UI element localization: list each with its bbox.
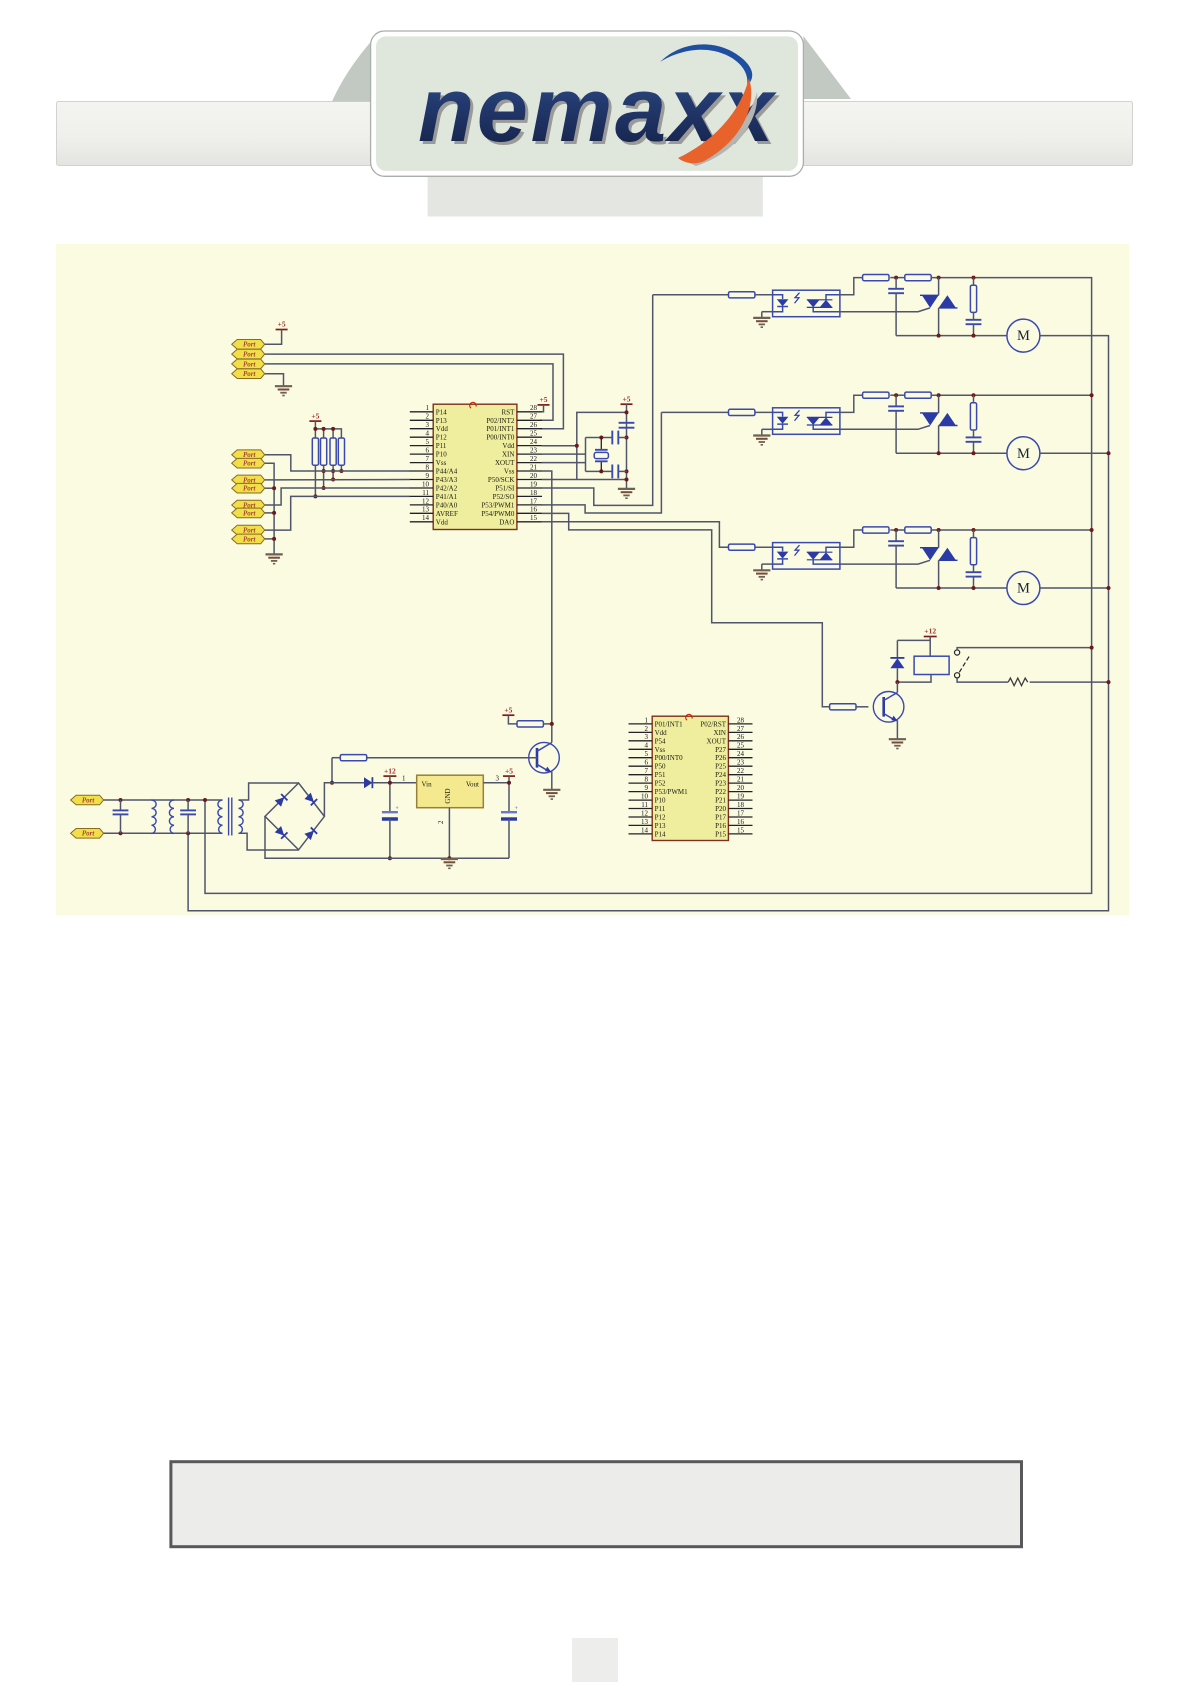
svg-text:M: M: [1017, 446, 1030, 462]
svg-text:P14: P14: [655, 830, 666, 838]
junction: [972, 393, 976, 397]
svg-text:Vss: Vss: [436, 459, 447, 467]
wire +5 to R5: [508, 715, 517, 724]
U2 pin 20 (P22) stub: [728, 791, 752, 793]
wire to ground: [761, 564, 763, 570]
wire +12 branch to flyback diode: [897, 639, 930, 641]
svg-text:5: 5: [645, 750, 649, 758]
switch S1 (relay contacts): [955, 650, 970, 678]
transformer T1 primary: [218, 800, 223, 834]
svg-text:Port: Port: [243, 341, 257, 349]
wire Q2 emitter to ground: [896, 720, 898, 738]
svg-text:Vss: Vss: [655, 746, 666, 754]
wire R2 top: [323, 429, 325, 438]
wire R9 to Q2 base: [856, 706, 868, 708]
port connector J6: [232, 458, 265, 468]
svg-text:12: 12: [641, 809, 649, 817]
svg-text:1: 1: [402, 775, 406, 783]
U1 pin 5 (P11) stub: [410, 445, 433, 447]
svg-text:2: 2: [645, 725, 649, 733]
svg-text:3: 3: [426, 421, 430, 429]
svg-text:9: 9: [645, 784, 649, 792]
U1 pin 8 (P44/A4) stub: [410, 470, 433, 472]
U1 pin 14 (Vdd) stub: [410, 521, 433, 523]
svg-text:14: 14: [641, 826, 649, 834]
optocoupler U4 (channel 1): [773, 290, 840, 317]
wire D1 to regulator Vin: [372, 782, 416, 784]
wire C3 to rail: [618, 470, 626, 472]
ground (top-left ports): [275, 386, 292, 395]
wire C8 bottom: [120, 814, 122, 833]
schematic sheet background: [56, 244, 1129, 915]
port connector J4: [232, 369, 265, 379]
capacitor C9 (snubber channel 3): [966, 572, 982, 576]
svg-text:P50: P50: [655, 763, 666, 771]
wire opto to TR3 gate: [840, 560, 930, 564]
svg-text:2: 2: [437, 820, 445, 824]
U2 pin 22 (P24) stub: [728, 774, 752, 776]
U2 pin 2 (Vdd) stub: [629, 731, 653, 733]
junction on AC rail B: [1107, 451, 1111, 455]
U2 pin 3 (P54) stub: [629, 740, 653, 742]
resistor R3: [330, 438, 336, 465]
wire to snubber cap: [895, 278, 897, 289]
wire ground rail (bridge DC-): [265, 816, 509, 858]
junction: [388, 856, 392, 860]
svg-text:+12: +12: [384, 766, 396, 775]
wire channel 2 input: [661, 411, 728, 413]
+12 power (relay): [924, 627, 937, 637]
U2 pin 26 (XOUT) stub: [728, 740, 752, 742]
svg-text:16: 16: [530, 506, 538, 514]
logo gray swoosh: [688, 92, 757, 166]
wire channel 1 bottom rail: [896, 335, 1007, 337]
wire +5 rail (crystal): [626, 404, 628, 488]
capacitor C7 (snubber channel 1): [966, 320, 982, 324]
svg-text:P43/A3: P43/A3: [436, 476, 458, 484]
junction: [937, 393, 941, 397]
svg-text:5: 5: [426, 438, 430, 446]
wire to C8: [120, 800, 122, 810]
svg-text:1: 1: [426, 404, 430, 412]
capacitor C5 (channel 2): [888, 406, 904, 410]
junction: [972, 586, 976, 590]
U1 pin 6 (P10) stub: [410, 453, 433, 455]
svg-text:27: 27: [737, 725, 745, 733]
svg-text:18: 18: [737, 801, 745, 809]
U1 pin 23 (XIN) stub: [517, 453, 542, 455]
junction: [894, 528, 898, 532]
junction: [447, 856, 451, 860]
wire opto U5 output up to top row: [840, 395, 863, 412]
wire +5 to R1 top: [314, 421, 316, 438]
port connector J5: [232, 450, 265, 460]
svg-text:1: 1: [645, 716, 649, 724]
U1 designator C: [470, 402, 476, 408]
svg-text:RST: RST: [502, 408, 516, 416]
junction: [322, 427, 326, 431]
port connector J12: [232, 534, 265, 544]
U2 pin 1 (P01/INT1) stub: [629, 723, 653, 725]
svg-text:20: 20: [530, 472, 538, 480]
crystal Y1: [594, 438, 608, 472]
svg-text:16: 16: [737, 818, 745, 826]
U1 pin 21 (Vss) stub: [517, 470, 542, 472]
resistor R21 (snubber channel 2): [970, 403, 976, 430]
wire motor 2 to AC rail B: [1040, 452, 1109, 454]
wire AC top rail: [104, 799, 223, 801]
page number block: [572, 1638, 618, 1682]
svg-text:P20: P20: [715, 805, 726, 813]
svg-text:21: 21: [530, 463, 538, 471]
svg-text:Vdd: Vdd: [436, 518, 449, 526]
wire to snubber cap: [895, 395, 897, 406]
diode D3 (bridge): [275, 794, 288, 807]
U2 pin 23 (P25) stub: [728, 765, 752, 767]
U1 pin 26 (P01/INT1) stub: [517, 428, 542, 430]
resistor R1: [312, 438, 318, 465]
wire R2 bottom to P42/A2 line: [323, 465, 325, 488]
port connector J7: [232, 475, 265, 485]
logo orange swoosh: [678, 78, 751, 163]
diode D4 (bridge): [304, 793, 317, 806]
wire motor 1 to AC rail B (outer loop): [188, 336, 1108, 911]
svg-text:+5: +5: [311, 411, 319, 420]
wire U1 pin 21 down to Q1 collector net: [542, 471, 552, 742]
capacitor C1 (supply filter): [619, 423, 635, 428]
resistor R17 (channel 1): [905, 275, 931, 281]
svg-text:15: 15: [737, 826, 745, 834]
wire U1 XIN pin 23: [542, 453, 586, 455]
wire +12 to relay coil: [929, 637, 931, 657]
junction: [507, 781, 511, 785]
U1 pin 2 (P13) stub: [410, 419, 433, 421]
wire Q1 emitter to ground: [551, 771, 553, 789]
U2 pin 12 (P12) stub: [629, 816, 653, 818]
svg-text:P42/A2: P42/A2: [436, 485, 458, 493]
svg-text:P24: P24: [715, 771, 726, 779]
resistor R14 (channel 1): [863, 275, 889, 281]
wire port1 to +5: [265, 330, 282, 345]
U2 pin 21 (P23) stub: [728, 782, 752, 784]
junction: [186, 798, 190, 802]
ground (power supply): [441, 859, 458, 868]
wire port3 to U1 pin 27 P02/INT2: [265, 364, 553, 420]
junction: [937, 451, 941, 455]
svg-text:Vss: Vss: [504, 468, 515, 476]
wire secondary bottom to bridge: [239, 833, 299, 850]
svg-text:P54: P54: [655, 737, 666, 745]
ground (channel 3 opto): [753, 570, 770, 579]
port connector J10: [232, 508, 265, 518]
wire U1 P54/PWM0 to relay driver base: [542, 513, 830, 706]
svg-text:AVREF: AVREF: [436, 510, 458, 518]
wire opto U4 cathode to ground: [762, 311, 773, 313]
wire +5 node to C11: [508, 776, 510, 812]
wire R12 to opto U5: [755, 411, 773, 413]
svg-text:P00/INT0: P00/INT0: [486, 434, 515, 442]
svg-text:10: 10: [422, 480, 430, 488]
port connector J9: [232, 500, 265, 510]
svg-text:Vdd: Vdd: [436, 425, 449, 433]
relay K1 coil: [914, 656, 949, 674]
svg-text:P54/PWM0: P54/PWM0: [481, 510, 515, 518]
svg-text:28: 28: [737, 716, 745, 724]
wire XIN/XOUT left rail: [585, 438, 587, 472]
wire cap to bottom rail: [895, 293, 897, 335]
transformer T1 secondary: [239, 800, 244, 834]
transformer T1 core: [229, 798, 232, 836]
inductor L2 (common-mode choke winding B): [169, 800, 174, 834]
wire port6 to ground bus: [265, 463, 274, 554]
wire opto U6 output up to top row: [840, 530, 863, 547]
svg-text:P11: P11: [655, 805, 666, 813]
svg-text:Port: Port: [243, 360, 257, 368]
junction: [119, 798, 123, 802]
svg-text:17: 17: [737, 809, 745, 817]
junction: [599, 436, 603, 440]
+5 power (crystal filter): [621, 394, 633, 404]
U1 pin 13 (AVREF) stub: [410, 512, 433, 514]
svg-text:17: 17: [530, 497, 538, 505]
junction: [972, 528, 976, 532]
wire to diode cathode: [896, 640, 898, 658]
svg-text:P44/A4: P44/A4: [436, 468, 458, 476]
wire port12 to ground bus: [265, 538, 274, 540]
svg-text:P27: P27: [715, 746, 726, 754]
U1 pin 9 (P43/A3) stub: [410, 479, 433, 481]
wire R11 to opto U4: [755, 294, 773, 296]
junction collector node: [895, 680, 899, 684]
inductor L1 (common-mode choke winding A): [152, 800, 157, 834]
U1 pin 1 (P14) stub: [410, 411, 433, 413]
junction: [388, 781, 392, 785]
junction on AC rail A: [1090, 393, 1094, 397]
footer frame box: [171, 1462, 1022, 1547]
svg-text:P15: P15: [715, 830, 726, 838]
svg-text:GND: GND: [444, 788, 452, 803]
logo sub-tab: [428, 176, 763, 216]
svg-text:+5: +5: [504, 705, 512, 714]
U1 pin 4 (P12) stub: [410, 436, 433, 438]
junction on AC rail A: [1090, 528, 1094, 532]
junction rectifier output: [330, 781, 334, 785]
svg-text:23: 23: [737, 759, 745, 767]
junction: [599, 469, 603, 473]
junction: [272, 486, 276, 490]
U1 pin 11 (P41/A1) stub: [410, 495, 433, 497]
svg-text:18: 18: [530, 489, 538, 497]
wire C10 to ground rail: [389, 819, 391, 858]
svg-text:XIN: XIN: [714, 729, 726, 737]
wire regulator GND pin 2: [448, 808, 450, 859]
U2 pin 4 (Vss) stub: [629, 748, 653, 750]
svg-text:+5: +5: [505, 766, 513, 775]
junction: [119, 831, 123, 835]
U1 pin 24 (Vdd) stub: [517, 445, 542, 447]
ground (Q2 emitter): [889, 739, 906, 748]
wire to snubber resistor: [973, 530, 975, 538]
resistor R18 (channel 2): [905, 392, 931, 398]
resistor R5 (pull-up): [517, 721, 543, 727]
junction: [272, 511, 276, 515]
port connector J2: [232, 349, 265, 359]
+5 power (Q1 pull-up): [502, 705, 514, 715]
wire pull-up top rail: [315, 429, 341, 438]
svg-text:P26: P26: [715, 754, 726, 762]
wire U1 P50/SCK pin 20 to rail: [542, 479, 627, 481]
U2 pin 18 (P20) stub: [728, 808, 752, 810]
+12 power (rectifier): [383, 766, 396, 776]
U2 pin 14 (P14) stub: [629, 833, 653, 835]
wire diode anode to collector node: [896, 668, 898, 682]
wire port10 to ground bus: [265, 512, 274, 514]
svg-text:7: 7: [426, 455, 430, 463]
svg-text:7: 7: [645, 767, 649, 775]
wire opto U5 cathode to ground: [762, 428, 773, 430]
wire to C9: [187, 800, 189, 810]
junction: [322, 469, 326, 473]
U2 pin 17 (P17) stub: [728, 816, 752, 818]
svg-text:6: 6: [426, 447, 430, 455]
optocoupler U5 (channel 2): [773, 408, 840, 435]
wire crystal top to C2: [601, 437, 612, 439]
resistor R11 (channel 1 input): [729, 292, 755, 298]
junction: [972, 334, 976, 338]
bridge rectifier BR1: [265, 783, 324, 850]
wire base tap down to rectifier output: [331, 758, 333, 783]
capacitor C10 (input filter): [382, 806, 400, 819]
wire secondary top to bridge: [239, 783, 299, 800]
wire C11 to ground rail: [508, 819, 510, 858]
wire port7 to U1 pin 9 P43/A3: [265, 479, 410, 481]
junction: [313, 427, 317, 431]
wire port9 to U1 pin 10 P42/A2: [265, 488, 410, 505]
wire R10 to AC rail B: [1030, 681, 1109, 683]
svg-text:28: 28: [530, 404, 538, 412]
wire R4 bottom to P44/A4 line: [340, 465, 342, 471]
svg-text:+12: +12: [924, 627, 936, 636]
svg-text:P10: P10: [436, 451, 447, 459]
wire R1 bottom to P41/A1 line: [314, 465, 316, 496]
svg-text:25: 25: [737, 742, 745, 750]
wire R3 bottom to P43/A3 line: [332, 465, 334, 479]
svg-text:22: 22: [737, 767, 745, 775]
junction: [625, 469, 629, 473]
U1 pin 27 (P02/INT2) stub: [517, 419, 542, 421]
svg-text:27: 27: [530, 413, 538, 421]
svg-text:P13: P13: [436, 417, 447, 425]
wire Q2 collector: [896, 682, 898, 692]
diode D2 (flyback): [890, 658, 904, 668]
svg-text:Port: Port: [243, 460, 257, 468]
wire port11 to U1 pin 11 P41/A1: [265, 496, 410, 530]
motor M2: [1007, 437, 1040, 470]
svg-text:P25: P25: [715, 763, 726, 771]
triac TR3 (channel 3): [920, 530, 958, 588]
wire C2 to +5 rail: [618, 437, 626, 439]
junction: [625, 410, 629, 414]
svg-text:XOUT: XOUT: [707, 737, 727, 745]
transistor Q1 (zero-cross detector): [529, 742, 560, 773]
resistor R12 (channel 2 input): [729, 409, 755, 415]
U2 pin 11 (P11) stub: [629, 808, 653, 810]
svg-text:13: 13: [641, 818, 649, 826]
svg-text:P51/SI: P51/SI: [495, 485, 515, 493]
svg-text:9: 9: [426, 472, 430, 480]
wire XOUT node bottom: [586, 470, 602, 472]
ground (channel 1 opto): [753, 318, 770, 327]
resistor R15 (channel 2): [863, 392, 889, 398]
wire opto U4 output up to top row: [840, 278, 863, 295]
svg-text:Port: Port: [243, 509, 257, 517]
+5 power (regulator output): [503, 766, 515, 776]
U2 pin 19 (P21) stub: [728, 799, 752, 801]
resistor R20 (snubber channel 1): [970, 285, 976, 312]
svg-text:3: 3: [496, 775, 500, 783]
transistor Q2 (relay driver): [873, 692, 904, 723]
ground (left port bus): [266, 554, 283, 563]
port connector J3: [232, 359, 265, 369]
wire Vout to +5 node: [483, 782, 509, 784]
junction collector pull-up: [550, 722, 554, 726]
wire to snubber resistor: [973, 278, 975, 286]
wire port2 to U1 pin 26 P01/INT1: [265, 354, 564, 429]
svg-text:P11: P11: [436, 442, 447, 450]
svg-text:22: 22: [530, 455, 538, 463]
right ribbon fold: [803, 36, 851, 99]
svg-text:P52/SO: P52/SO: [493, 493, 515, 501]
svg-text:P13: P13: [655, 822, 666, 830]
capacitor C6 (channel 3): [888, 541, 904, 545]
resistor R13 (channel 3 input): [729, 544, 755, 550]
wire U1 DAO to channel 3 input: [542, 522, 729, 547]
wire channel 3 bottom rail: [896, 587, 1007, 589]
svg-text:19: 19: [530, 480, 538, 488]
junction Vdd/+5 rail: [575, 444, 579, 448]
wire R3 top: [332, 429, 334, 438]
svg-text:12: 12: [422, 497, 430, 505]
+5 power (top-left ports): [276, 320, 288, 330]
junction: [203, 798, 207, 802]
wire between resistors: [890, 529, 905, 531]
wire opto U6 cathode to ground: [762, 563, 773, 565]
svg-text:Vout: Vout: [466, 780, 479, 788]
junction: [937, 276, 941, 280]
U2 pin 16 (P16) stub: [728, 824, 752, 826]
wire to snubber resistor: [973, 395, 975, 403]
wire AC bottom rail: [104, 832, 223, 834]
svg-text:Port: Port: [243, 527, 257, 535]
svg-text:20: 20: [737, 784, 745, 792]
U2 pin 6 (P50) stub: [629, 765, 653, 767]
wire crystal bottom to C3: [601, 470, 612, 472]
wire relay coil bottom to collector node: [897, 675, 931, 683]
U1 pin 7 (Vss) stub: [410, 462, 433, 464]
svg-text:P02/INT2: P02/INT2: [486, 417, 515, 425]
junction: [894, 393, 898, 397]
U2 pin 28 (P02/RST) stub: [728, 723, 752, 725]
wire +5 rail to P50/SCK net: [577, 412, 627, 479]
U1 pin 3 (Vdd) stub: [410, 428, 433, 430]
wire R6 to Q1 base: [367, 757, 537, 759]
junction: [937, 528, 941, 532]
wire resistor to cap: [973, 312, 975, 319]
junction: [972, 451, 976, 455]
svg-text:P10: P10: [655, 797, 666, 805]
junction on AC rail B: [1107, 680, 1111, 684]
wire +12 node to C10: [389, 776, 391, 812]
